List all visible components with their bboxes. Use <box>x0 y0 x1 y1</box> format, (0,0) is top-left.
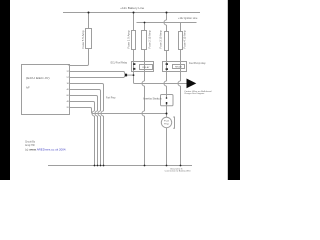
svg-text:Fuel Pmp: Fuel Pmp <box>106 96 116 99</box>
svg-text:ECU Fuel Relay: ECU Fuel Relay <box>111 61 128 64</box>
svg-text:+12v Battery Line: +12v Battery Line <box>120 6 144 10</box>
svg-text:Charger See Diagram: Charger See Diagram <box>184 92 204 95</box>
svg-text:Andy Hill: Andy Hill <box>25 143 35 147</box>
svg-text:(ECU EEC-IV): (ECU EEC-IV) <box>26 76 50 80</box>
svg-text:Fuse 1 5 Amp: Fuse 1 5 Amp <box>128 30 131 49</box>
svg-text:Connection to Battery Wire: Connection to Battery Wire <box>165 170 192 173</box>
svg-text:Fuel: Fuel <box>164 121 170 123</box>
svg-text:Fuse 4 15 Amp: Fuse 4 15 Amp <box>184 30 187 49</box>
svg-text:Fuse 2 15 Amp: Fuse 2 15 Amp <box>148 30 151 49</box>
svg-text:(c) www AREDmes.co.uk 2004.: (c) www AREDmes.co.uk 2004. <box>25 147 66 151</box>
svg-text:Inertia Switch: Inertia Switch <box>143 97 162 100</box>
svg-text:RELAY: RELAY <box>143 66 151 69</box>
svg-text:Fuse 3 10 Amp: Fuse 3 10 Amp <box>160 30 163 49</box>
svg-text:A/F: A/F <box>26 87 30 90</box>
svg-text:Fuse 5 5 Amp: Fuse 5 5 Amp <box>82 30 85 49</box>
svg-text:+12v Ignition Line: +12v Ignition Line <box>178 16 198 20</box>
svg-text:RELAY: RELAY <box>175 65 183 68</box>
svg-text:Fuel Pump relay: Fuel Pump relay <box>189 62 206 65</box>
